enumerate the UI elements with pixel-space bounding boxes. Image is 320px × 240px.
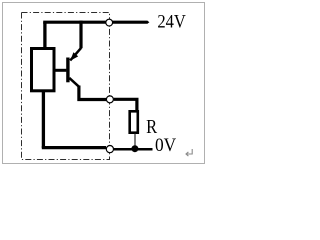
- wire: lead from block bottom down: [42, 91, 45, 148]
- transistor Q1 collector diagonal: [69, 78, 79, 87]
- transistor Q1 emitter arrow (PNP): [70, 52, 78, 61]
- sensor enclosure dash-dot box: [22, 13, 110, 160]
- svg-text:24V: 24V: [157, 12, 186, 33]
- wire: +24V supply rail: [43, 21, 147, 24]
- junction dot: [131, 145, 138, 152]
- transistor Q1 base bar: [66, 58, 69, 83]
- transistor Q1 emitter lead: [79, 21, 82, 49]
- page frame: [3, 3, 205, 164]
- wire: base link from block to transistor: [55, 69, 67, 72]
- resistor R body: [130, 111, 138, 132]
- wire: collector down and to output terminal: [79, 86, 106, 100]
- terminal middle (output): [106, 96, 113, 103]
- wire: output to load: [114, 99, 137, 110]
- transistor Q1 emitter diagonal: [70, 48, 81, 61]
- block (sensor element): [32, 49, 55, 91]
- wire: lead from rail down to block top: [43, 22, 46, 47]
- terminal bottom (0V): [106, 146, 113, 153]
- wire: resistor bottom lead: [134, 134, 136, 148]
- wire: 0V tail to label: [114, 148, 153, 151]
- wire tip at 24V: [147, 20, 149, 24]
- svg-text:0V: 0V: [155, 135, 176, 156]
- wire: 0V rail inside enclosure: [42, 146, 106, 149]
- svg-text:R: R: [146, 116, 158, 138]
- paragraph return mark: [186, 149, 192, 156]
- terminal top (24V): [106, 19, 113, 26]
